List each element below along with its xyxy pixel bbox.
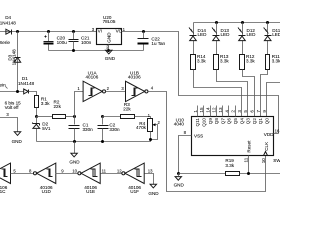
svg-text:Q9: Q9 [208,118,213,125]
junction node D3/D4 [16,30,19,33]
wire input rail to regulator [0,31,97,33]
wire R2 to C1 node [66,116,75,118]
wire U20 ground pin [108,45,110,51]
svg-text:330n: 330n [109,127,120,132]
svg-text:Q2: Q2 [252,118,257,125]
svg-text:13: 13 [218,107,223,113]
svg-text:3.3k: 3.3k [220,59,229,64]
wire node to U1A input [75,92,84,117]
svg-text:4: 4 [224,110,229,113]
svg-text:4040: 4040 [174,122,185,127]
pin stub Q9 pin14 [210,106,212,117]
LED D12 [238,23,256,55]
pin stub Q6 pin4 [228,106,230,117]
svg-text:16: 16 [275,128,280,133]
resistor R2 [53,100,66,119]
potentiometer R4 [136,113,161,141]
svg-text:VO: VO [116,28,123,33]
svg-text:11: 11 [102,168,107,173]
junction C2 top [101,115,104,118]
svg-text:D4: D4 [5,15,11,20]
svg-text:1N4148: 1N4148 [0,21,16,26]
svg-text:3: 3 [237,110,242,113]
ground symbol connector [12,132,23,144]
svg-text:Serie: Serie [0,40,10,45]
svg-text:LED: LED [247,32,257,37]
wire U1B out clock net [149,92,266,192]
inverter U1A [83,70,105,101]
svg-text:6: 6 [250,110,255,113]
svg-text:13: 13 [148,168,153,173]
wire U1F in to ground [145,174,154,185]
resistor R1 [35,96,51,108]
capacitor C20 [44,32,68,51]
VDD pin 16 stub [274,133,279,135]
voltage regulator U20 78L05 [92,15,126,49]
svg-text:12: 12 [212,107,217,113]
svg-text:Q4: Q4 [239,118,244,125]
svg-text:Q11: Q11 [195,118,200,127]
svg-text:U1F: U1F [130,189,139,194]
inverter U1F [122,163,144,194]
wire ground rail under caps [49,50,144,52]
resistor R19 [225,158,239,175]
svg-text:SW1: SW1 [273,158,280,163]
ground symbol VSS [174,174,185,188]
wire R13 to pin 5 [217,70,248,117]
svg-text:3.3k: 3.3k [272,59,280,64]
resistor R11 [266,54,282,70]
inverter U1D [33,163,55,194]
junction D13 rail [215,21,218,24]
svg-text:14: 14 [205,107,210,113]
junction R1/D2/R2 [35,115,38,118]
connector pin 3 [0,112,18,132]
wire LED top rail [194,22,281,24]
wire ground rail middle [37,133,151,142]
capacitor C2 [98,117,121,142]
svg-text:LED: LED [221,32,231,37]
svg-text:10: 10 [261,158,266,164]
junction C21 bottom [72,49,75,52]
SECTION: power supply top-left [0,15,279,134]
resistor R13 [214,54,230,70]
pin stub Q5 pin2 [235,106,237,117]
svg-text:Q10: Q10 [202,118,207,127]
LED D14 [189,23,207,55]
svg-text:40106: 40106 [128,75,141,80]
wire R19 to switch [240,173,281,175]
pin number labels top [193,107,267,113]
junction input/D3 [16,90,19,93]
wire D3 branch vertical [17,32,19,92]
svg-text:5V1: 5V1 [42,126,51,131]
junction C22 [142,30,145,33]
LED D13 [212,23,230,55]
svg-text:GND: GND [12,139,23,144]
svg-text:GND: GND [107,32,112,43]
svg-text:100u: 100u [57,40,68,45]
svg-text:1u Tan: 1u Tan [151,41,165,46]
svg-text:VDD: VDD [264,132,274,137]
svg-text:3.3k: 3.3k [197,59,206,64]
ground junction VSS [177,172,180,175]
SECTION: IC U10 [174,106,284,188]
svg-text:Q0: Q0 [265,118,270,125]
svg-text:Q8: Q8 [214,118,219,125]
LED D11 [263,23,281,55]
ground symbol U1F [148,184,159,196]
SECTION: LED array top-right [189,21,282,117]
wire input to D1 [0,91,24,93]
wire R12 to pin 6 [243,70,255,117]
junction C1 bottom [73,140,76,143]
resistor R14 [191,54,207,70]
wire C2 to R3 [103,116,121,118]
pin stub Q7 pin13 [222,106,224,117]
svg-text:VI: VI [98,28,102,33]
svg-text:1: 1 [193,110,198,113]
ground symbol U20 [105,50,116,61]
Reset pin 11 wire [248,156,250,174]
svg-text:LED: LED [198,32,208,37]
junction C1 top [73,115,76,118]
svg-text:3.3k: 3.3k [41,101,50,106]
diode D1 [18,76,35,94]
svg-text:470k: 470k [136,125,147,130]
svg-text:3.3k: 3.3k [225,163,234,168]
IC U10 4040 body [192,117,274,156]
wire R11 to pin 7 [261,70,268,117]
junction reset pulldown [247,172,250,175]
svg-text:9: 9 [262,110,267,113]
VSS pin 8 stub [179,136,192,174]
svg-text:10: 10 [72,168,77,173]
SECTION: oscillator middle [0,70,266,191]
wire D1 to R1 [29,92,37,96]
svg-text:Reset: Reset [247,140,252,153]
ground symbol middle [69,142,80,165]
junction D11 rail [266,21,269,24]
svg-text:GND: GND [174,182,185,187]
svg-text:5: 5 [243,110,248,113]
svg-text:1N4148: 1N4148 [11,49,16,66]
svg-text:GND: GND [105,56,116,61]
svg-text:3.3k: 3.3k [246,59,255,64]
svg-text:GND: GND [69,160,80,165]
wire ground rail to R19 [179,173,226,175]
svg-text:LED: LED [272,32,280,37]
wire node to R2 [37,116,53,118]
diode D4 [0,15,16,35]
svg-text:100n: 100n [81,40,92,45]
svg-text:ein: ein [0,82,6,87]
junction D12 rail [241,21,244,24]
svg-text:78L05: 78L05 [103,19,116,24]
wire from right edge to pin 9 [267,83,281,117]
inverter U1B [126,70,148,101]
zener diode D2 [33,117,51,142]
junction U20 gnd [107,49,110,52]
svg-text:U1C: U1C [0,189,6,194]
pin stub Q10 pin15 [203,106,205,117]
svg-text:1N4148: 1N4148 [18,81,35,86]
svg-text:U1D: U1D [42,189,52,194]
svg-text:22k: 22k [54,104,62,109]
capacitor C22 [138,32,166,51]
pin stub Q11 pin1 [197,106,199,117]
svg-text:11: 11 [244,157,249,162]
svg-text:Volt eff: Volt eff [5,105,20,110]
svg-text:22k: 22k [123,107,131,112]
inverter U1E [78,163,100,194]
wire R14 to pin 3 [194,70,242,117]
svg-text:15: 15 [199,107,204,113]
SECTION: bottom inverters [0,163,159,196]
svg-text:CLK: CLK [264,141,269,151]
wire U1E out to U1D in [56,173,78,175]
wire U1F out to U1E in [101,173,122,175]
junction C20 [47,30,50,33]
capacitor C1 [69,117,94,142]
junction C21 top [72,30,75,33]
capacitor C21 [69,32,92,51]
svg-text:Q6: Q6 [227,118,232,125]
junction C2 bottom [101,140,104,143]
svg-text:2: 2 [231,110,236,113]
label ein input [0,82,8,88]
svg-text:U1E: U1E [86,189,95,194]
pin stub Q8 pin12 [216,106,218,117]
inverter U1C partial [0,163,11,194]
svg-text:7: 7 [256,110,261,113]
svg-text:330n: 330n [83,127,94,132]
wire R3 to R4 [135,117,151,119]
svg-text:Q3: Q3 [246,118,251,125]
svg-text:Q7: Q7 [220,118,225,125]
Q output labels inside [195,118,269,127]
diode D3 [7,49,20,66]
svg-text:VSS: VSS [194,133,203,138]
svg-text:40106: 40106 [86,75,99,80]
wire U1A out to U1B in [106,91,126,93]
wire U1D out to U1C in [11,173,34,175]
wire 5V net from VO to VDD [122,32,279,134]
svg-text:GND: GND [148,191,159,196]
svg-text:Q5: Q5 [233,118,238,125]
svg-text:Q1: Q1 [258,118,263,125]
resistor R3 [121,102,135,119]
resistor R12 [240,54,256,70]
clock input marker [264,152,268,156]
wire R1 to node [36,108,38,117]
